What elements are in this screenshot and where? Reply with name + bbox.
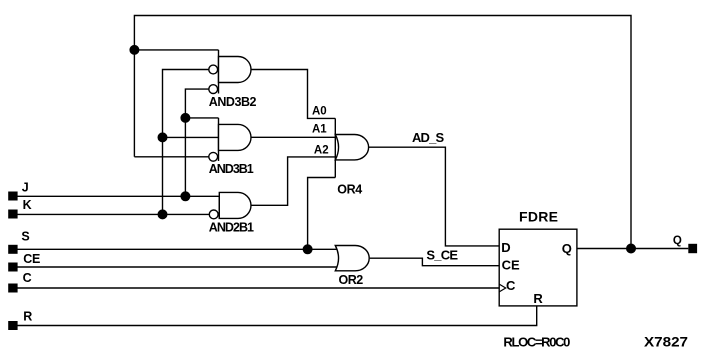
svg-text:A1: A1: [312, 123, 327, 135]
svg-text:CE: CE: [502, 258, 520, 273]
svg-text:AND3B1: AND3B1: [209, 162, 254, 176]
svg-text:R: R: [23, 309, 32, 323]
svg-text:S: S: [21, 229, 29, 243]
svg-text:X7827: X7827: [644, 334, 688, 350]
svg-text:D: D: [501, 240, 510, 255]
svg-text:CE: CE: [23, 252, 40, 266]
svg-text:A2: A2: [314, 145, 329, 157]
svg-text:AND2B1: AND2B1: [209, 220, 254, 234]
svg-text:C: C: [23, 271, 32, 285]
svg-text:K: K: [23, 198, 32, 212]
svg-text:OR2: OR2: [339, 273, 364, 287]
svg-text:Q: Q: [562, 241, 572, 256]
svg-text:RLOC=R0C0: RLOC=R0C0: [503, 335, 570, 350]
svg-text:S_CE: S_CE: [426, 247, 458, 262]
svg-text:AND3B2: AND3B2: [209, 95, 257, 109]
svg-text:OR4: OR4: [337, 183, 362, 197]
svg-text:A0: A0: [312, 105, 327, 117]
svg-text:J: J: [22, 181, 29, 195]
svg-text:AD_S: AD_S: [412, 130, 445, 145]
svg-text:R: R: [533, 291, 543, 306]
svg-text:Q: Q: [673, 235, 682, 247]
svg-text:C: C: [506, 278, 516, 293]
svg-text:FDRE: FDRE: [519, 209, 558, 225]
